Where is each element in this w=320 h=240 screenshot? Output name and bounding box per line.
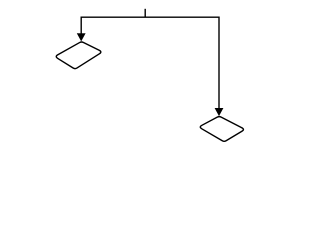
arrowhead right xyxy=(215,108,223,115)
wire right vertical drop xyxy=(218,17,220,109)
node: right skewed rounded box xyxy=(200,117,243,142)
wire horizontal connector xyxy=(81,16,219,18)
node: left skewed rounded box xyxy=(56,42,101,69)
wire left vertical drop xyxy=(80,17,82,35)
arrowhead left xyxy=(77,34,85,41)
wire stub up from horizontal connector xyxy=(144,9,146,17)
